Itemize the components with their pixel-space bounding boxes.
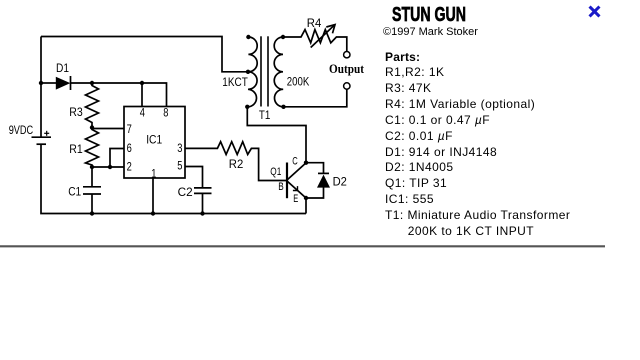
svg-text:R4: R4 [307,16,322,30]
svg-text:R2: R2 [229,157,244,171]
svg-text:9VDC: 9VDC [9,123,34,137]
svg-text:C2: C2 [178,185,193,199]
svg-text:R3: R3 [69,105,83,119]
svg-text:R1: R1 [69,142,83,156]
svg-text:8: 8 [163,105,168,119]
svg-text:T1: T1 [259,108,271,122]
svg-text:7: 7 [127,122,132,136]
svg-text:1: 1 [151,167,156,181]
svg-text:IC1: IC1 [146,133,162,147]
svg-text:D2: D2 [333,174,348,188]
svg-text:2: 2 [127,160,132,174]
svg-text:6: 6 [127,141,132,155]
svg-text:B: B [278,181,284,193]
svg-text:E: E [293,193,298,205]
svg-text:5: 5 [177,159,182,173]
svg-text:STUN GUN: STUN GUN [392,3,466,26]
svg-text:Q1: Q1 [270,166,281,178]
svg-text:1KCT: 1KCT [222,75,248,89]
svg-text:C: C [292,156,298,168]
svg-text:3: 3 [177,141,182,155]
svg-text:D1: D1 [56,61,69,75]
svg-text:200K: 200K [287,75,310,89]
svg-text:C1: C1 [68,184,81,198]
svg-text:Output: Output [329,61,365,76]
svg-text:4: 4 [140,105,145,119]
